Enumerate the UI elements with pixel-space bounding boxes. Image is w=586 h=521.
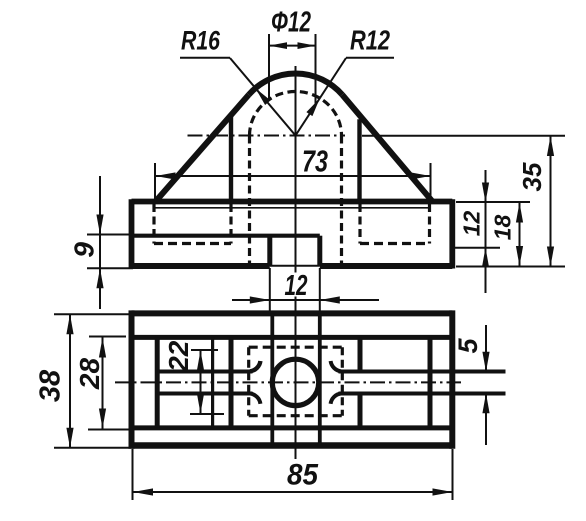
svg-text:38: 38	[34, 369, 66, 402]
bell left side edge vertical	[229, 116, 233, 201]
plan groove line right	[318, 313, 322, 445]
ext line bottom 22	[190, 413, 224, 415]
plan inner left edge	[155, 337, 160, 428]
svg-text:9: 9	[68, 242, 99, 258]
plan slot lower line left part	[157, 392, 252, 396]
bottom rear edge seen through notch (thin)	[270, 265, 320, 267]
plan outer rect right edge	[449, 310, 455, 448]
plan groove line left	[270, 313, 274, 445]
center hole circle	[272, 359, 318, 405]
dim line 12 bottom	[232, 299, 379, 301]
plan vertical line V2	[211, 337, 214, 428]
svg-text:R12: R12	[350, 25, 390, 56]
dim line 18	[519, 203, 521, 267]
slot end arc upper-left	[250, 361, 260, 371]
dim line 28	[102, 338, 104, 429]
dim line 85	[133, 491, 453, 493]
svg-text:35: 35	[517, 162, 547, 191]
left hidden slot left side dashed	[152, 204, 155, 244]
hidden cavity right side dashed	[340, 136, 343, 264]
svg-text:22: 22	[163, 340, 194, 373]
right hidden slot bottom dashed	[360, 242, 430, 245]
ext line bottom 9	[87, 267, 133, 269]
left hidden slot right side dashed	[229, 204, 232, 244]
svg-text:12: 12	[458, 211, 484, 237]
slot end arc upper-right	[331, 361, 341, 371]
plan vertical line V6 upper part	[358, 337, 363, 371]
svg-text:28: 28	[74, 358, 105, 391]
ext line top 38	[54, 313, 131, 315]
hidden cavity left side dashed	[248, 136, 251, 264]
ext line bottom 28	[88, 429, 134, 431]
base left edge	[129, 199, 135, 268]
svg-text:12: 12	[285, 270, 308, 302]
slot end arc lower-right	[331, 394, 341, 404]
hidden pocket dashed rect right	[341, 347, 344, 416]
plan inner top edge	[134, 335, 450, 340]
dim line 35	[550, 136, 552, 267]
bell right side edge vertical	[357, 119, 361, 201]
base bottom edge right part	[320, 263, 453, 269]
ext line bottom for 18,35	[456, 266, 565, 268]
dim line 12 right	[485, 170, 487, 293]
dim line 5 lower shaft	[485, 394, 487, 446]
plan slot upper line left part	[157, 370, 252, 374]
ext line y=202 for 12,18	[456, 201, 530, 203]
ext line right of phi12	[315, 34, 317, 104]
hidden pocket dashed rect bottom	[249, 414, 343, 417]
ext line left 73	[154, 163, 156, 204]
plan inner bottom edge	[134, 425, 450, 430]
right hidden slot left side dashed	[358, 204, 361, 244]
ext line top 22	[191, 349, 218, 351]
thin edge line under base top	[155, 207, 430, 209]
svg-text:Φ12: Φ12	[271, 7, 311, 39]
vertical center line of both views	[295, 66, 297, 273]
ext line bottom 38	[54, 447, 131, 449]
hidden cavity R12 dashed arc	[250, 92, 342, 136]
extension of center line to right for dim 35	[362, 135, 565, 137]
ext line right 85	[452, 449, 454, 500]
dim line 38	[69, 314, 71, 448]
plan outer rect left edge	[129, 310, 135, 448]
front view horizontal center line (dash-dot)	[188, 135, 346, 137]
base right edge	[449, 199, 455, 268]
plan vertical line V3	[229, 337, 234, 428]
svg-text:73: 73	[302, 144, 328, 179]
svg-text:R16: R16	[181, 26, 221, 56]
bell outer contour: left tangent line	[156, 95, 249, 202]
dim line 73	[156, 175, 431, 177]
ext line left 85	[132, 449, 134, 500]
ext line y=248 for 12	[455, 247, 500, 249]
base bottom edge left part	[132, 263, 270, 269]
plan outer rect top edge	[132, 310, 453, 316]
dim line 5 upper shaft	[485, 325, 487, 372]
ext line right notch	[319, 268, 321, 313]
svg-text:18: 18	[489, 215, 515, 241]
plan slot upper line right part	[339, 370, 506, 374]
notch right edge	[317, 236, 322, 266]
ext line top 28	[89, 336, 126, 338]
plan horizontal center line (dash-dot)	[115, 381, 461, 383]
slot end arc lower-left	[250, 394, 260, 404]
base step visible edge	[132, 234, 320, 238]
hidden pocket dashed rect top	[249, 346, 343, 349]
ext line top 9	[87, 234, 133, 236]
bell outer contour: R16 top arc	[249, 73, 342, 94]
svg-text:5: 5	[453, 338, 483, 354]
right hidden slot right side dashed	[428, 204, 431, 244]
svg-text:85: 85	[287, 459, 319, 492]
dim line phi12	[269, 45, 316, 47]
plan slot lower line right part	[339, 392, 506, 396]
base top edge	[132, 199, 453, 205]
dim line 9	[99, 176, 101, 309]
plan vertical line V6 lower part	[358, 394, 363, 428]
ext line left notch	[269, 268, 271, 313]
bell outer contour: right tangent line	[342, 95, 432, 202]
hidden pocket dashed rect left	[247, 347, 250, 416]
dim line 22	[200, 351, 202, 414]
plan inner right edge	[428, 337, 433, 428]
ext line left of phi12	[268, 34, 270, 101]
plan outer rect bottom edge	[132, 442, 453, 448]
left hidden slot bottom dashed	[154, 242, 231, 245]
notch left edge	[267, 236, 272, 266]
ext line right 73	[430, 163, 432, 204]
